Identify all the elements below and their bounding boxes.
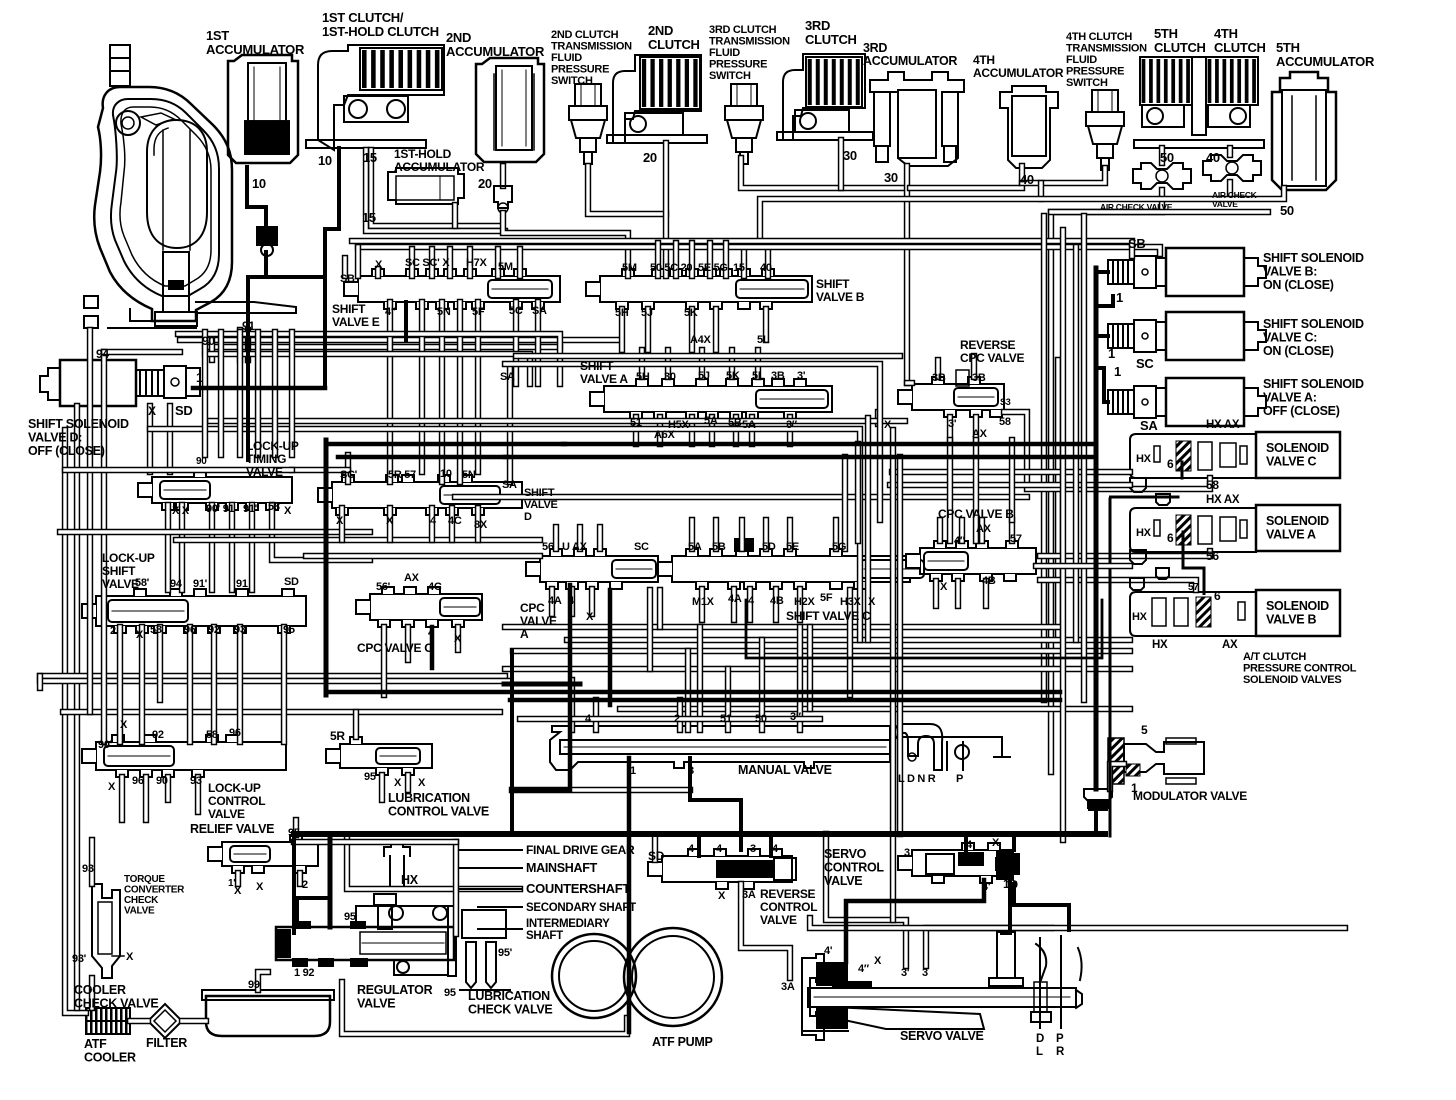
wire	[1041, 216, 1047, 700]
svg-text:SHIFT SOLENOID: SHIFT SOLENOID	[28, 417, 129, 431]
wire	[741, 158, 905, 188]
wire	[255, 332, 261, 455]
svg-text:4A: 4A	[728, 593, 742, 605]
wire	[281, 627, 287, 742]
svg-text:X: X	[874, 955, 882, 967]
wire	[1073, 247, 1079, 640]
svg-text:2ND: 2ND	[648, 23, 673, 38]
svg-text:90': 90'	[98, 739, 113, 751]
wire	[713, 309, 719, 350]
svg-text:FLUID: FLUID	[551, 52, 582, 64]
svg-text:15: 15	[362, 210, 376, 225]
svg-text:TRANSMISSION: TRANSMISSION	[1066, 43, 1147, 55]
svg-text:58: 58	[1206, 478, 1219, 492]
svg-text:SHIFT: SHIFT	[524, 487, 555, 499]
torque converter output flange	[196, 302, 296, 313]
wire	[937, 520, 943, 541]
wire	[218, 332, 224, 455]
wire	[353, 712, 359, 737]
svg-text:VALVE D:: VALVE D:	[28, 431, 82, 445]
wire	[358, 247, 1160, 254]
wire	[165, 505, 171, 590]
wire	[723, 243, 729, 276]
svg-text:1: 1	[1116, 290, 1123, 305]
4th clutch	[1206, 57, 1258, 105]
svg-text:5E: 5E	[786, 541, 799, 553]
svg-text:3B: 3B	[972, 372, 986, 384]
wire	[65, 430, 86, 1013]
svg-text:FLUID: FLUID	[1066, 54, 1097, 66]
svg-text:58: 58	[206, 729, 218, 741]
svg-text:A: A	[520, 627, 529, 641]
wire	[513, 648, 1130, 654]
wire	[725, 669, 731, 730]
torque converter check valve	[92, 884, 120, 978]
svg-text:SC: SC	[1136, 356, 1154, 371]
svg-text:51: 51	[630, 417, 642, 429]
svg-text:3: 3	[922, 967, 928, 979]
svg-text:30: 30	[843, 148, 857, 163]
hatched crossing right	[1107, 737, 1109, 739]
wire	[503, 213, 628, 276]
wire	[371, 150, 500, 226]
svg-text:58: 58	[150, 624, 162, 636]
wire	[452, 205, 458, 226]
svg-text:5: 5	[1141, 723, 1148, 737]
wire	[505, 364, 880, 520]
wire	[689, 243, 695, 276]
wire	[549, 589, 555, 614]
svg-text:30: 30	[664, 371, 676, 383]
wire	[520, 716, 820, 722]
svg-text:ACCUMULATOR: ACCUMULATOR	[1276, 54, 1375, 69]
svg-text:40: 40	[1206, 150, 1220, 165]
wire	[306, 553, 540, 559]
svg-text:CHECK VALVE: CHECK VALVE	[468, 1003, 552, 1017]
solenoid valve B	[1130, 592, 1256, 636]
svg-text:91: 91	[236, 578, 248, 590]
svg-text:VALVE: VALVE	[760, 913, 797, 927]
wire	[130, 1018, 148, 1024]
svg-text:SHIFT: SHIFT	[332, 302, 366, 316]
svg-text:58: 58	[999, 416, 1011, 428]
svg-text:HX: HX	[401, 873, 419, 887]
svg-text:X: X	[256, 881, 264, 893]
servo pipe 10 cap	[1000, 853, 1020, 875]
svg-text:MAINSHAFT: MAINSHAFT	[526, 861, 598, 875]
wire	[495, 249, 501, 276]
wire	[593, 700, 599, 730]
svg-text:94: 94	[170, 578, 183, 590]
wire	[731, 589, 737, 620]
svg-text:LOCK-UP: LOCK-UP	[246, 439, 299, 453]
corrugated return line	[1181, 462, 1184, 478]
wire	[387, 508, 393, 540]
wire	[63, 709, 500, 715]
shift valve B	[600, 276, 812, 302]
svg-text:2ND CLUTCH: 2ND CLUTCH	[551, 29, 619, 41]
svg-text:5F: 5F	[820, 592, 833, 604]
svg-text:90: 90	[196, 456, 207, 467]
wire	[210, 418, 905, 424]
shift valve C lower box	[746, 600, 1102, 658]
clutch center support	[1192, 57, 1206, 135]
svg-text:SHIFT SOLENOID: SHIFT SOLENOID	[1263, 317, 1364, 331]
svg-text:95: 95	[444, 987, 456, 999]
svg-text:30: 30	[884, 170, 898, 185]
wire	[101, 352, 107, 742]
svg-text:95: 95	[288, 827, 300, 839]
svg-text:90' 91: 90' 91	[206, 503, 235, 515]
wire	[429, 508, 435, 540]
svg-text:CONVERTER: CONVERTER	[124, 885, 185, 896]
svg-text:H3X: H3X	[840, 596, 861, 608]
wire	[797, 627, 803, 730]
wire	[1004, 412, 1210, 489]
svg-text:VALVE: VALVE	[520, 614, 557, 628]
svg-text:SC: SC	[634, 541, 649, 553]
wire	[475, 508, 481, 540]
svg-text:HX: HX	[1152, 639, 1168, 651]
wire	[1055, 360, 1061, 640]
svg-text:ACCUMULATOR: ACCUMULATOR	[863, 54, 957, 68]
wire	[1036, 563, 1130, 569]
wire	[209, 340, 215, 360]
wire	[405, 775, 411, 790]
shift valve A	[604, 386, 832, 412]
svg-text:1ST-HOLD: 1ST-HOLD	[394, 147, 452, 161]
svg-text:CLUTCH: CLUTCH	[1154, 40, 1206, 55]
svg-text:LOCK-UP: LOCK-UP	[208, 781, 261, 795]
wire	[973, 417, 979, 440]
svg-text:X: X	[718, 890, 726, 902]
svg-text:1ST-HOLD CLUTCH: 1ST-HOLD CLUTCH	[322, 24, 439, 39]
svg-text:CPC: CPC	[520, 601, 545, 615]
svg-text:ON (CLOSE): ON (CLOSE)	[1263, 278, 1334, 292]
wire	[65, 467, 292, 473]
svg-text:4″: 4″	[954, 535, 966, 547]
wire	[838, 140, 844, 188]
wire	[352, 241, 1132, 256]
svg-text:40: 40	[1020, 172, 1034, 187]
wire	[588, 166, 666, 214]
1st clutch / 1st-hold clutch	[318, 45, 444, 150]
wire	[294, 839, 456, 845]
wire	[507, 368, 513, 482]
svg-text:58': 58'	[135, 577, 150, 589]
svg-text:AIR CHECK VALVE: AIR CHECK VALVE	[1100, 202, 1173, 212]
ATF cooler	[86, 1008, 130, 1034]
wire	[89, 840, 95, 884]
svg-text:X: X	[336, 515, 344, 527]
wire	[620, 706, 1130, 712]
wire	[907, 380, 912, 386]
svg-text:CONTROL: CONTROL	[208, 794, 265, 808]
svg-text:X: X	[454, 633, 462, 645]
wire	[419, 302, 425, 472]
lock-up shift valve	[96, 596, 306, 626]
svg-text:3″: 3″	[786, 419, 798, 431]
svg-text:99: 99	[248, 979, 260, 991]
svg-text:10: 10	[318, 153, 332, 168]
shift solenoid valve SA	[1108, 390, 1134, 414]
wire	[713, 520, 719, 549]
svg-text:91': 91'	[243, 503, 258, 515]
wire	[663, 143, 669, 276]
wire	[513, 302, 519, 384]
svg-text:SOLENOID: SOLENOID	[1266, 441, 1329, 455]
wire	[741, 884, 790, 978]
svg-text:LOCK-UP: LOCK-UP	[102, 551, 155, 565]
svg-text:M1X: M1X	[692, 596, 715, 608]
svg-text:56: 56	[542, 541, 554, 553]
svg-text:CPC VALVE: CPC VALVE	[960, 351, 1024, 365]
manual valve detent	[895, 724, 942, 770]
wire	[1060, 230, 1066, 840]
wire	[685, 651, 691, 730]
svg-text:X: X	[375, 259, 383, 271]
wire	[890, 430, 896, 920]
wire	[165, 777, 171, 800]
svg-text:A6X: A6X	[654, 429, 675, 441]
wire	[342, 258, 348, 276]
svg-text:3″: 3″	[790, 711, 802, 723]
svg-text:SHAFT: SHAFT	[526, 930, 563, 942]
wire	[657, 417, 663, 444]
wire	[150, 429, 860, 640]
air check valve left	[1133, 163, 1191, 189]
wire	[1040, 580, 1196, 590]
svg-text:5C: 5C	[509, 305, 523, 317]
svg-text:VALVE C:: VALVE C:	[1263, 331, 1317, 345]
wire	[647, 590, 653, 669]
svg-text:95: 95	[364, 771, 376, 783]
wire	[366, 150, 505, 231]
svg-text:92: 92	[208, 624, 220, 636]
wire	[709, 417, 715, 444]
lock-up timing valve	[152, 477, 292, 503]
svg-text:5N: 5N	[437, 306, 451, 318]
wire	[673, 243, 679, 276]
svg-text:RELIEF VALVE: RELIEF VALVE	[190, 822, 274, 836]
svg-text:95: 95	[283, 624, 295, 636]
wire	[892, 469, 1130, 475]
svg-text:1: 1	[1108, 346, 1115, 361]
svg-text:ACCUMULATOR: ACCUMULATOR	[206, 42, 305, 57]
svg-text:94: 94	[96, 347, 109, 361]
servo control valve	[912, 850, 1012, 876]
wire	[639, 350, 645, 377]
svg-text:FINAL DRIVE GEAR: FINAL DRIVE GEAR	[526, 843, 635, 857]
svg-text:VALVE: VALVE	[124, 906, 155, 917]
wire	[760, 243, 768, 249]
svg-text:U AX: U AX	[562, 541, 588, 553]
svg-text:OFF (CLOSE): OFF (CLOSE)	[1263, 404, 1340, 418]
svg-text:6: 6	[1167, 531, 1174, 545]
svg-text:P: P	[956, 773, 963, 785]
wire	[117, 627, 123, 742]
wire	[567, 637, 1130, 643]
svg-text:5TH: 5TH	[1276, 40, 1300, 55]
wire	[729, 350, 735, 377]
svg-text:VALVE: VALVE	[208, 807, 245, 821]
svg-text:AX: AX	[1222, 639, 1238, 651]
svg-text:50: 50	[755, 713, 767, 725]
wire	[455, 494, 1027, 500]
svg-text:SOLENOID: SOLENOID	[1266, 514, 1329, 528]
wire	[40, 673, 505, 679]
svg-text:56: 56	[1206, 549, 1219, 563]
wire	[1207, 551, 1213, 556]
svg-text:CONTROL: CONTROL	[760, 900, 817, 914]
wire	[973, 440, 979, 541]
svg-text:HX AX: HX AX	[1206, 419, 1240, 431]
svg-text:VALVE: VALVE	[1212, 199, 1238, 209]
wire	[947, 417, 953, 440]
wire	[855, 444, 861, 541]
svg-text:3: 3	[688, 765, 694, 777]
svg-text:SHIFT VALVE C: SHIFT VALVE C	[786, 609, 871, 623]
wire	[180, 337, 620, 343]
servo valve clip curves	[1036, 944, 1046, 980]
wire	[245, 330, 251, 360]
wire	[104, 349, 180, 355]
svg-text:3RD: 3RD	[863, 41, 887, 55]
svg-text:SB: SB	[1128, 236, 1145, 251]
svg-text:REVERSE: REVERSE	[960, 338, 1016, 352]
svg-text:VALVE B: VALVE B	[816, 290, 865, 304]
svg-text:1ST CLUTCH/: 1ST CLUTCH/	[322, 10, 404, 25]
wire	[773, 589, 779, 620]
svg-text:CLUTCH: CLUTCH	[805, 32, 857, 47]
wire	[553, 527, 559, 549]
svg-text:ACCUMULATOR: ACCUMULATOR	[973, 66, 1064, 80]
torque converter	[110, 45, 130, 86]
wire	[211, 627, 217, 742]
wire	[652, 835, 658, 860]
svg-text:1: 1	[1114, 364, 1121, 379]
wire	[89, 978, 95, 1008]
wire	[807, 627, 813, 709]
svg-text:AX: AX	[972, 428, 988, 440]
svg-text:93': 93'	[72, 953, 87, 965]
reverse control valve	[662, 856, 792, 882]
wire	[787, 417, 793, 444]
wire	[755, 350, 761, 377]
wire	[249, 505, 255, 590]
wire	[60, 529, 370, 535]
svg-text:CHECK: CHECK	[124, 895, 159, 906]
svg-text:CPC VALVE B: CPC VALVE B	[938, 507, 1014, 521]
wire	[865, 418, 871, 640]
wire	[763, 309, 769, 340]
svg-text:L: L	[1036, 1046, 1043, 1058]
svg-text:5G: 5G	[832, 541, 846, 553]
wire	[657, 590, 663, 627]
svg-text:57: 57	[1188, 582, 1199, 593]
svg-text:X: X	[418, 777, 426, 789]
svg-text:5B: 5B	[728, 417, 742, 429]
wire	[1081, 216, 1087, 700]
wire	[347, 838, 520, 889]
svg-text:H2X: H2X	[794, 596, 815, 608]
svg-text:TRANSMISSION: TRANSMISSION	[709, 36, 790, 48]
wire	[707, 243, 713, 276]
wire	[677, 700, 683, 730]
manual valve	[550, 726, 890, 770]
svg-text:MANUAL VALVE: MANUAL VALVE	[738, 763, 832, 777]
svg-text:20: 20	[643, 150, 657, 165]
svg-text:X: X	[992, 837, 1000, 849]
wire	[933, 581, 939, 606]
svg-text:40: 40	[760, 262, 772, 274]
air check valve right	[1203, 155, 1261, 181]
svg-text:X: X	[284, 505, 292, 517]
svg-text:96: 96	[229, 727, 241, 739]
wire	[235, 873, 241, 884]
regulator valve	[276, 927, 454, 960]
3rd clutch transmission fluid pressure switch	[731, 84, 757, 106]
svg-text:HX AX: HX AX	[1206, 494, 1240, 506]
shift solenoid valve SC	[1108, 324, 1134, 348]
2nd clutch	[613, 55, 701, 143]
svg-text:2: 2	[110, 625, 116, 637]
svg-text:HX: HX	[1136, 527, 1152, 539]
wire	[833, 520, 839, 549]
svg-text:FLUID: FLUID	[709, 47, 740, 59]
wire	[379, 775, 385, 800]
svg-text:X: X	[884, 419, 892, 431]
wire	[665, 350, 671, 377]
wire	[733, 417, 739, 444]
svg-text:VALVE A: VALVE A	[580, 372, 628, 386]
CPC valve C	[370, 594, 482, 620]
thick feed lines layer	[193, 148, 1113, 1032]
junction block	[256, 226, 278, 246]
svg-text:51: 51	[720, 713, 732, 725]
svg-text:SOLENOID VALVES: SOLENOID VALVES	[1243, 674, 1341, 686]
solenoid valve C	[1130, 434, 1256, 478]
svg-text:3': 3'	[948, 418, 957, 430]
shift valve E	[358, 276, 560, 302]
shift solenoid valve D	[40, 368, 60, 400]
wire	[535, 302, 541, 384]
svg-text:4B: 4B	[982, 575, 996, 587]
wire	[205, 344, 560, 350]
svg-text:50: 50	[1280, 203, 1294, 218]
svg-text:91': 91'	[193, 578, 208, 590]
svg-text:91: 91	[242, 319, 255, 333]
wire	[500, 166, 506, 186]
svg-text:VALVE: VALVE	[524, 499, 558, 511]
svg-text:SHIFT: SHIFT	[816, 277, 850, 291]
svg-text:ACCUMULATOR: ACCUMULATOR	[446, 44, 545, 59]
wire	[971, 356, 977, 377]
svg-text:5L: 5L	[757, 334, 770, 346]
wire	[1040, 553, 1210, 559]
svg-text:A4X: A4X	[690, 334, 711, 346]
svg-text:SERVO VALVE: SERVO VALVE	[900, 1029, 984, 1043]
svg-text:4″: 4″	[385, 306, 397, 318]
svg-text:8X: 8X	[474, 519, 488, 531]
svg-text:20: 20	[478, 176, 492, 191]
svg-text:4TH CLUTCH: 4TH CLUTCH	[1066, 31, 1132, 43]
svg-text:2ND: 2ND	[446, 30, 471, 45]
svg-text:50 5C 20: 50 5C 20	[650, 262, 692, 274]
wire	[739, 520, 745, 549]
wire	[842, 457, 848, 549]
svg-text:VALVE: VALVE	[102, 577, 139, 591]
